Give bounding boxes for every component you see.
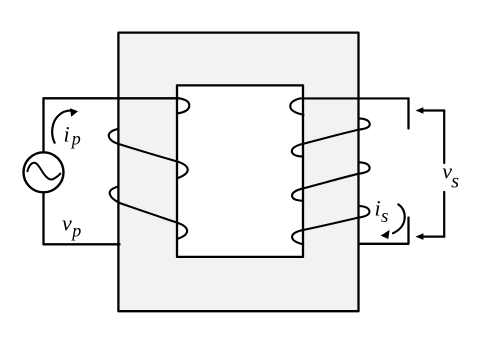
is curved arrow [393,204,405,233]
svg-text:i: i [64,121,70,146]
secondary coil turn 3 (right bump + diagonal + left bump) [292,162,370,200]
wire secondary top terminal [407,98,409,128]
primary coil turn 3 (left bump + diagonal) [110,187,187,239]
vs bracket bottom arrow line [422,236,444,238]
ip curved arrow [52,111,71,143]
vs bracket vertical upper [443,111,445,164]
transformer core window [177,85,303,257]
svg-text:p: p [70,220,81,240]
wire top primary [44,97,180,99]
transformer core outer [118,33,358,312]
vs bracket top arrow line [422,109,444,111]
svg-text:v: v [62,210,72,235]
svg-text:i: i [375,195,381,220]
wire left vertical lower [42,192,44,244]
secondary coil turn 4 (right bump + diagonal + left bump) [292,206,369,244]
source V1 sine [27,163,60,180]
primary coil turn 2 (left bump + diagonal) [109,129,188,178]
primary coil turn 1 (right bump) [177,98,189,113]
vs bracket vertical lower [443,192,445,237]
wire secondary bottom [359,218,409,244]
vs bracket bottom arrowhead [416,233,424,240]
secondary top wire + coil turn 1 (left bump) [290,98,408,114]
svg-text:p: p [70,129,81,149]
source V1 circle [24,152,64,192]
ip arrowhead [70,108,78,117]
vs bracket top arrowhead [416,107,424,114]
svg-text:s: s [451,171,459,193]
svg-text:s: s [381,206,388,227]
wire bottom primary [44,243,120,245]
is arrowhead [381,230,390,239]
secondary coil turn 2 (right bump + diagonal + left bump) [292,118,370,156]
wire left vertical upper [42,98,44,152]
